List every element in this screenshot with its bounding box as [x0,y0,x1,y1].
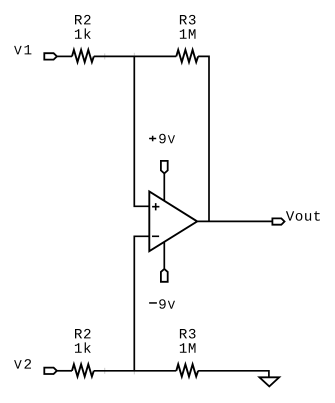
wire - input down to bottom rail [134,236,149,370]
pin +9V [161,161,168,174]
value 1M (top) [180,29,196,38]
wire R3 bottom to ground [198,371,269,378]
value 1k (bottom) [75,342,91,352]
net label V1 [14,45,31,54]
resistor R3 (bottom) [176,364,198,376]
wire +9V pin to op-amp [163,173,165,201]
net label Vout [286,211,320,221]
resistor R3 (top) [176,50,198,62]
label R3 (bottom) [180,329,196,339]
label R2 (bottom) [75,329,91,339]
wire joint tick (bottom rail, R2 pin) [104,368,106,374]
ground [259,377,279,386]
op-amp U1 triangle [149,192,197,252]
label R3 (top) [180,15,196,25]
net label -9V [149,302,157,304]
wire op-amp output to Vout [197,220,272,222]
value 1M (bottom) [180,343,196,352]
resistor R2 (bottom) [72,364,94,376]
label R2 (top) [75,15,91,25]
wire R2 to R3 (bottom rail) [94,370,177,372]
wire V1 port to R2 [57,55,72,57]
resistor R2 (top) [72,50,94,62]
wire top rail junction down to + input [134,56,149,206]
net label V2 [14,359,31,369]
value 1k (top) [75,28,91,38]
pin -9V [161,269,168,282]
wire joint tick (top rail, R2 pin) [104,53,106,59]
port V1 [44,53,57,59]
wire V2 port to R2 bottom [57,370,72,372]
net label +9V [149,136,156,142]
wire joint tick (top rail T junction) [133,53,135,57]
op-amp - input marking [152,235,159,237]
wire op-amp to -9V pin [163,242,165,269]
wire R2 to R3 (top rail) [94,55,177,57]
port V2 [44,368,57,374]
port Vout [272,218,284,224]
wire R3 right to output node (feedback) [198,56,209,221]
wire joint tick (bottom rail T junction) [133,371,135,375]
op-amp + input marking [152,203,159,210]
